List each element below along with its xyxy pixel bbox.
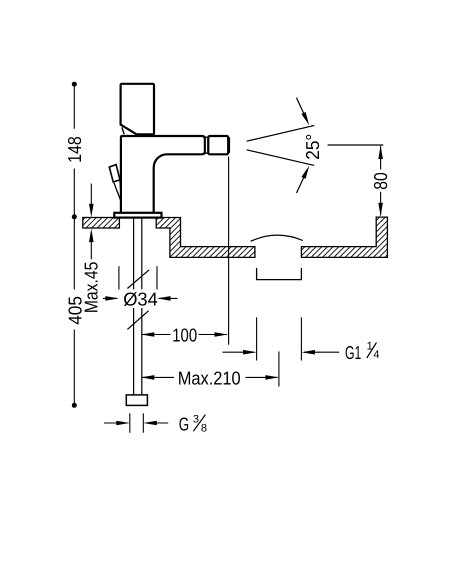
spray angle lower line <box>247 150 315 166</box>
lever knob <box>109 165 120 182</box>
hose nut <box>126 395 147 406</box>
dimension G1 1/4 arrows <box>223 351 255 353</box>
dimension D34 ticks <box>118 266 120 289</box>
svg-text:G: G <box>179 414 189 435</box>
80 reference line <box>328 144 384 146</box>
bidet floor right and wall hatched <box>301 217 387 257</box>
dimension 100 <box>142 334 171 336</box>
drain centre tick <box>278 351 280 386</box>
svg-text:Ø34: Ø34 <box>123 289 158 310</box>
aerator tip <box>228 138 230 153</box>
dot bottom <box>72 403 77 408</box>
supply pipes <box>134 218 142 395</box>
bidet rim step hatched <box>156 218 255 258</box>
drain flange U <box>257 268 302 280</box>
faucet base plate <box>114 213 161 218</box>
aerator extension line <box>228 157 230 345</box>
dimension Max.45 <box>90 184 92 260</box>
dimension G3/8 ticks <box>129 413 131 432</box>
dimension 80 <box>380 146 382 170</box>
svg-text:80: 80 <box>370 172 391 189</box>
faucet body <box>121 136 205 213</box>
dimension G3/8 arrows <box>104 422 128 424</box>
angle leader lower <box>297 175 306 193</box>
svg-text:8: 8 <box>201 422 207 434</box>
svg-text:25°: 25° <box>302 134 323 160</box>
faucet head <box>121 84 154 135</box>
dot middle <box>72 214 77 219</box>
drain arc <box>251 235 303 241</box>
spray angle upper line <box>247 126 315 142</box>
svg-text:100: 100 <box>172 325 197 346</box>
dimension Max.210 <box>142 376 174 378</box>
dimension D34 arrows <box>103 297 117 299</box>
angle leader upper <box>297 98 306 116</box>
svg-text:Max.45: Max.45 <box>81 262 102 314</box>
break slash lower <box>127 311 148 330</box>
svg-text:148: 148 <box>64 136 85 163</box>
svg-text:G1: G1 <box>345 342 361 363</box>
spout neck <box>205 137 208 153</box>
svg-text:Max.210: Max.210 <box>178 367 241 388</box>
lever stem <box>114 182 121 200</box>
svg-text:4: 4 <box>373 349 379 361</box>
left dimension line <box>73 84 75 405</box>
break slash upper <box>127 270 149 289</box>
dot top <box>72 82 77 87</box>
head slot line <box>122 127 124 134</box>
countertop rim left hatched <box>83 218 120 229</box>
drain pipe lines <box>256 317 258 360</box>
aerator <box>208 136 228 154</box>
